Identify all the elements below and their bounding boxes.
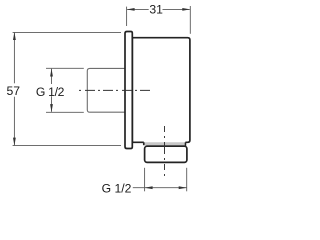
svg-text:G 1/2: G 1/2 <box>102 182 132 196</box>
svg-text:57: 57 <box>7 84 21 98</box>
svg-text:31: 31 <box>149 2 163 16</box>
svg-text:G 1/2: G 1/2 <box>36 85 65 99</box>
